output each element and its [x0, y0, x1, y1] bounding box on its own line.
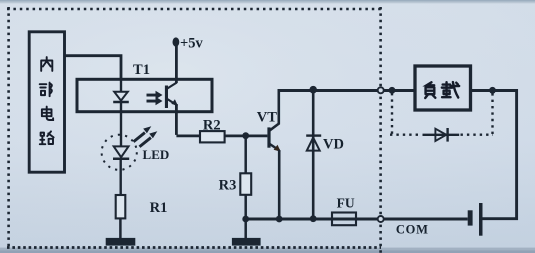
diode VD vertical lead	[312, 91, 315, 220]
wire: opto emitter down and right to R2	[176, 104, 200, 136]
opto light arrow 2	[147, 97, 163, 105]
indicator LED dotted circle	[102, 135, 137, 170]
ground under R3 node	[232, 219, 261, 246]
opto LED cathode lead down to indicator LED	[120, 102, 122, 146]
负	[425, 82, 435, 98]
dotted module border: bottom edge	[7, 246, 381, 249]
junction node VD top	[309, 86, 317, 94]
fuse FU	[332, 213, 356, 226]
svg-text:T1: T1	[133, 62, 150, 78]
wire: LED cathode to R1	[119, 159, 121, 195]
terminal circle on border (bottom rail)	[378, 216, 384, 222]
transistor VT collector	[269, 91, 279, 132]
indicator LED light arrow 2	[139, 131, 158, 148]
svg-text:R3: R3	[219, 177, 237, 193]
ground under R1	[106, 218, 136, 245]
svg-text:R2: R2	[203, 117, 221, 133]
bottom rail: R3 node to battery	[246, 218, 468, 221]
svg-text:+5v: +5v	[180, 36, 204, 52]
resistor R1	[116, 195, 126, 218]
opto phototransistor base bar	[165, 86, 168, 109]
+5v terminal	[173, 36, 204, 52]
opto phototransistor emitter with arrow	[167, 99, 178, 106]
wire: VT emitter down to bottom rail	[278, 150, 281, 219]
wire: +5v down into opto collector	[175, 42, 178, 83]
top rail: collector to load box	[278, 89, 416, 92]
svg-text:LED: LED	[143, 147, 170, 162]
载	[442, 82, 459, 97]
resistor R2	[200, 131, 225, 142]
junction node R3/ground	[242, 216, 249, 223]
indicator LED triangle	[114, 146, 129, 157]
indicator LED cathode bar	[113, 157, 129, 160]
terminal circle on border (top rail)	[378, 87, 384, 93]
svg-text:R1: R1	[150, 200, 168, 216]
wire: node down to R3	[244, 136, 247, 173]
junction node emitter/bottom rail	[276, 216, 283, 223]
load box (负载)	[415, 66, 471, 110]
diode VD cathode bar	[306, 134, 321, 136]
top rail: load box to right corner	[471, 91, 517, 219]
opto light arrow 1	[147, 91, 163, 99]
flyback diode dotted loop	[390, 93, 493, 135]
wire: R2 to VT base	[225, 134, 268, 137]
battery positive plate (long)	[479, 203, 483, 236]
wire: R3 down to bottom rail	[244, 195, 247, 219]
部	[40, 83, 52, 97]
junction node flyback left	[389, 87, 396, 94]
junction node VD bottom	[310, 215, 317, 222]
路	[40, 131, 54, 144]
diode VD triangle	[307, 138, 320, 151]
transistor VT base bar	[267, 127, 270, 147]
optocoupler T1 box	[77, 79, 212, 111]
indicator LED light arrow 1	[133, 126, 152, 143]
flyback diode symbol	[423, 128, 460, 142]
opto LED anode lead	[120, 79, 122, 91]
junction node R2/R3	[242, 132, 249, 139]
dotted module border: right edge	[379, 7, 382, 253]
svg-text:VD: VD	[323, 136, 344, 152]
junction node flyback right	[489, 87, 496, 94]
svg-text:COM: COM	[396, 223, 429, 237]
内	[41, 57, 52, 71]
resistor R3	[240, 173, 251, 195]
wire: internal circuit to opto LED anode	[64, 56, 121, 80]
电	[42, 107, 53, 120]
dotted module border: top edge	[7, 8, 381, 11]
dotted module border: left edge	[7, 7, 10, 249]
internal-circuit box (内部电路)	[29, 32, 64, 172]
svg-text:FU: FU	[337, 195, 355, 210]
opto phototransistor collector	[167, 83, 177, 90]
svg-text:VT: VT	[257, 110, 277, 126]
transistor VT emitter with arrow	[269, 144, 281, 152]
battery negative plate (short)	[468, 210, 473, 225]
opto LED cathode bar	[113, 101, 129, 104]
opto LED triangle	[114, 92, 128, 101]
